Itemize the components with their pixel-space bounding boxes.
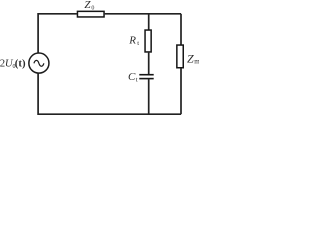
sine symbol [34,60,44,66]
wire: Z0 to top-right corner [105,13,181,15]
svg-text:(t): (t) [15,58,26,70]
capacitor Ct plate bottom [139,78,153,80]
svg-text:t: t [137,40,139,47]
wire: Ct to bottom wire [148,79,150,114]
svg-text:Z: Z [187,51,194,65]
label Zm [187,51,200,65]
wire: Zm to bottom-right corner [180,68,182,114]
wire: Rt to Ct [148,53,150,75]
label 2U0(t) [0,58,26,71]
wire: middle branch top [148,14,150,30]
label Z0 [84,0,94,12]
svg-text:t: t [136,77,138,84]
wire: right branch top [180,14,182,45]
label Rt [128,35,139,48]
wire: left side up and top-left corner to Z0 [38,14,77,53]
wire: source to bottom-left corner, bottom wire [38,74,181,115]
resistor Zm (right branch) [177,45,183,68]
svg-text:R: R [128,35,136,47]
resistor Rt (middle branch) [145,30,151,52]
svg-text:Z: Z [84,0,91,11]
capacitor Ct plate top [139,74,153,76]
source U (AC, circle) [29,53,49,73]
svg-text:C: C [128,71,136,83]
svg-text:m: m [194,57,199,65]
svg-text:0: 0 [91,6,94,12]
label Ct [128,71,138,83]
resistor Z0 (series, top) [77,11,104,17]
